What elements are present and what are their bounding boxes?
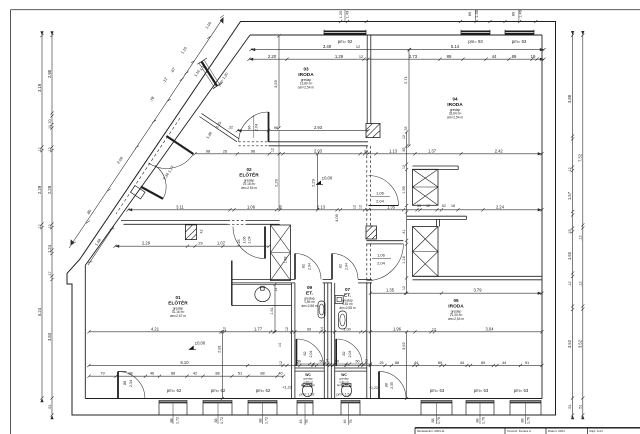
svg-text:pm= 62: pm= 62 (211, 388, 226, 393)
svg-text:12: 12 (365, 359, 369, 363)
svg-text:pm= 63: pm= 63 (514, 388, 529, 393)
svg-text:1.13: 1.13 (389, 148, 398, 153)
svg-text:89: 89 (512, 54, 517, 59)
fixture: basin counter line (232, 284, 292, 286)
door diag upper arc (148, 154, 193, 168)
dim chain left inner x=52 (50, 34, 53, 417)
svg-text:2,04: 2,04 (376, 199, 385, 204)
svg-text:.70: .70 (48, 119, 52, 124)
svg-text:5.24: 5.24 (37, 307, 42, 316)
svg-text:12: 12 (271, 148, 275, 152)
wall V3b: room 09 east (323, 283, 325, 399)
window bottom pm=63 a (421, 400, 452, 403)
dim line room05 left vertical (405, 330, 408, 400)
window bottom pm=62 a (159, 400, 187, 403)
door diag upper leaf (166, 136, 193, 154)
door corridor leaf (264, 227, 266, 259)
door corridor arc (233, 227, 265, 259)
svg-text:12: 12 (223, 327, 227, 331)
svg-text:ám=2,54 m: ám=2,54 m (241, 186, 257, 190)
svg-text:12: 12 (432, 327, 436, 331)
svg-text:1.24: 1.24 (47, 244, 52, 253)
svg-text:14: 14 (326, 359, 330, 363)
page frame (11, 9, 640, 11)
svg-text:1.28: 1.28 (237, 240, 241, 247)
svg-text:2.04: 2.04 (255, 124, 259, 131)
svg-text:12: 12 (402, 135, 406, 139)
svg-text:99: 99 (307, 327, 311, 331)
svg-text:2,35: 2,35 (390, 382, 394, 389)
wall: basin niche west wall (231, 261, 233, 306)
svg-text:1.37: 1.37 (428, 148, 437, 153)
svg-text:46: 46 (343, 420, 347, 424)
svg-text:1.77: 1.77 (254, 326, 263, 331)
svg-text:ám=2,54 m: ám=2,54 m (448, 317, 464, 321)
svg-text:3.52: 3.52 (567, 339, 572, 348)
svg-text:.50: .50 (318, 360, 323, 364)
svg-text:79: 79 (100, 371, 104, 376)
fixture: wc bowl 09 (303, 384, 313, 396)
svg-text:51: 51 (238, 371, 242, 376)
wall: mid bar (407, 215, 467, 217)
svg-text:12: 12 (402, 165, 406, 169)
svg-text:18: 18 (451, 204, 455, 208)
wall: door D3 head wall (366, 240, 403, 242)
wall: basin niche top (232, 278, 295, 280)
window top pm=93 a (461, 31, 490, 35)
window diagonal pm=1.20 (198, 58, 223, 89)
wall: ET/WC divider 09 (295, 367, 324, 369)
svg-text:4.09: 4.09 (334, 213, 339, 222)
svg-text:89: 89 (512, 12, 516, 16)
door room05 exit arc (379, 371, 406, 398)
door wc07 arc (336, 339, 362, 365)
svg-text:Munkaszám: 2004-11: Munkaszám: 2004-11 (417, 429, 445, 433)
wall: bottom inner face (85, 398, 542, 400)
svg-text:.51: .51 (568, 404, 572, 409)
svg-text:1.46: 1.46 (519, 10, 523, 17)
dim chain M8 (87, 375, 285, 378)
svg-text:12: 12 (359, 55, 363, 59)
wall V2: shaft west wall (275, 223, 277, 226)
svg-text:.29: .29 (197, 242, 202, 246)
svg-text:3.83: 3.83 (47, 332, 52, 341)
svg-text:Tervező: Kovács A.: Tervező: Kovács A. (507, 429, 532, 433)
column C1 hatched (366, 124, 380, 138)
svg-text:1,72: 1,72 (220, 417, 224, 424)
svg-text:ám=2,57 m: ám=2,57 m (170, 314, 186, 318)
svg-text:1,76: 1,76 (527, 417, 531, 424)
svg-text:1,76: 1,76 (482, 417, 486, 424)
svg-text:3.49: 3.49 (323, 44, 332, 49)
svg-text:1.68: 1.68 (284, 257, 288, 264)
svg-text:2.93: 2.93 (314, 125, 323, 130)
wall: corridor partition dashed lower (366, 244, 368, 284)
svg-text:Dátum: 2004: Dátum: 2004 (548, 429, 565, 433)
door diag lower arc (155, 166, 166, 199)
dim line x279 lower (278, 131, 280, 210)
svg-text:ám=2,54 m: ám=2,54 m (447, 116, 463, 120)
door wc09 arc (297, 339, 324, 366)
svg-text:ám=2,58 m: ám=2,58 m (339, 306, 355, 310)
svg-text:pm= 92: pm= 92 (338, 39, 353, 44)
svg-text:88: 88 (260, 371, 264, 376)
svg-text:.12: .12 (578, 235, 582, 240)
svg-text:2,34: 2,34 (129, 380, 133, 387)
svg-text:ám=2,54 m: ám=2,54 m (298, 86, 314, 90)
svg-text:ám=2,58 m: ám=2,58 m (301, 304, 317, 308)
door room01 south leaf (117, 372, 119, 399)
door diag lower leaf (141, 187, 163, 199)
svg-text:2.29: 2.29 (47, 185, 52, 194)
svg-text:±0,00: ±0,00 (322, 176, 333, 181)
svg-text:3.88: 3.88 (567, 94, 572, 103)
svg-text:34: 34 (364, 149, 368, 153)
svg-text:88: 88 (259, 419, 263, 423)
window top pm=93 b (505, 31, 534, 35)
svg-text:2.13: 2.13 (317, 204, 326, 209)
svg-text:2.42: 2.42 (495, 148, 504, 153)
svg-text:2.73: 2.73 (409, 54, 418, 59)
svg-text:1,06: 1,06 (243, 236, 247, 243)
svg-text:.12: .12 (48, 147, 52, 152)
shaft S2 x-braced (413, 169, 439, 205)
wall H1: rooms 02/03 partition (269, 141, 369, 143)
svg-text:88: 88 (521, 419, 525, 423)
svg-text:12: 12 (353, 205, 357, 209)
svg-text:1,72: 1,72 (176, 417, 180, 424)
svg-text:1.57: 1.57 (567, 191, 572, 200)
svg-text:01: 01 (175, 295, 181, 300)
door U leaf (369, 205, 399, 207)
shaft S1 x-braced (271, 225, 291, 281)
wall: top inner face (250, 34, 542, 36)
svg-text:1,72: 1,72 (265, 417, 269, 424)
leader lines above top wall (344, 10, 346, 22)
svg-text:3.52: 3.52 (577, 339, 582, 348)
svg-text:88: 88 (431, 419, 435, 423)
svg-text:pm= 63: pm= 63 (430, 388, 445, 393)
wall: right inner face (541, 35, 543, 399)
svg-text:.10: .10 (48, 125, 52, 130)
svg-text:ám=2,58 m: ám=2,58 m (337, 383, 352, 387)
svg-text:2,04: 2,04 (345, 263, 349, 270)
dim chain right inner x=572.6 (571, 34, 574, 417)
svg-text:88: 88 (171, 371, 175, 376)
svg-text:.51: .51 (578, 404, 582, 409)
svg-text:2,04: 2,04 (377, 261, 386, 266)
dim line room03/04 vertical x=409 (407, 48, 410, 148)
svg-text:26: 26 (223, 149, 227, 153)
svg-text:88: 88 (279, 205, 283, 209)
dim chain M1 (236, 129, 370, 132)
leader lines below windows (172, 403, 174, 424)
svg-text:62: 62 (442, 204, 446, 208)
dim 1.48 diagonal (88, 226, 115, 265)
wall V3c: room 07 east (366, 283, 368, 399)
svg-text:pm= 93: pm= 93 (512, 39, 527, 44)
svg-text:.41: .41 (402, 229, 406, 234)
window bottom pm=63 b (466, 400, 494, 403)
svg-text:1.61: 1.61 (270, 307, 274, 314)
title block band (415, 427, 640, 429)
door D1 arc (239, 112, 269, 142)
dim chain M3 (126, 208, 543, 211)
window bottom pm=62 b (203, 400, 232, 403)
wall: left inner face (84, 265, 86, 398)
fixture: washbasin room09 (318, 301, 325, 318)
svg-text:88: 88 (215, 371, 219, 376)
svg-text:7.32: 7.32 (577, 153, 582, 162)
wall: diagonal inner face (85, 35, 250, 265)
svg-text:42: 42 (193, 371, 197, 376)
door room09 north leaf (294, 254, 296, 280)
svg-text:.12: .12 (48, 224, 52, 229)
door wc09 leaf (296, 339, 298, 366)
ticks on top wall outer line (339, 20, 537, 23)
diag chain end arrows (219, 17, 225, 24)
svg-text:96: 96 (274, 125, 279, 130)
svg-text:12: 12 (356, 45, 360, 49)
wall H6: ET rooms north wall (0, 0, 1, 1)
svg-text:1.07: 1.07 (217, 241, 226, 246)
column C2 hatched (366, 226, 377, 239)
svg-text:pm= 62: pm= 62 (167, 388, 182, 393)
svg-text:.25: .25 (378, 361, 383, 365)
window bottom pm=62 c (248, 400, 277, 403)
dim chain top2 (247, 58, 545, 61)
door room01 south arc (118, 372, 145, 399)
door room09 north arc (295, 253, 321, 279)
svg-text:14: 14 (278, 343, 282, 347)
svg-text:1,06: 1,06 (377, 253, 386, 258)
wall H3: T-bar wall (413, 165, 459, 167)
svg-text:2,04: 2,04 (348, 351, 352, 358)
svg-text:89: 89 (468, 12, 472, 16)
dim chain top1 (249, 48, 545, 51)
wall H4: room 05 north wall (413, 275, 542, 277)
fixture: sink room07 (335, 296, 343, 304)
svg-text:4.21: 4.21 (151, 326, 160, 331)
wall: room05 upper west wall (435, 219, 437, 226)
svg-text:pm= 1,52: pm= 1,52 (299, 393, 314, 397)
svg-text:.82: .82 (302, 264, 306, 269)
svg-text:09: 09 (307, 285, 313, 290)
svg-text:05: 05 (453, 298, 459, 303)
svg-text:98: 98 (206, 148, 211, 153)
svg-text:.17: .17 (48, 271, 52, 276)
svg-text:.82: .82 (342, 352, 346, 357)
svg-text:89: 89 (481, 360, 485, 365)
svg-text:.12: .12 (578, 281, 582, 286)
svg-text:pm= 93: pm= 93 (468, 39, 483, 44)
svg-text:2,04: 2,04 (308, 263, 312, 270)
svg-text:pm= 1,52: pm= 1,52 (336, 393, 351, 397)
wall H2: room 01 north wall (121, 220, 228, 222)
svg-text:±0,00: ±0,00 (195, 341, 206, 346)
svg-text:1,06: 1,06 (376, 191, 385, 196)
svg-text:ám=2,58 m: ám=2,58 m (301, 383, 316, 387)
wall V3a: room 09 west (291, 283, 293, 399)
svg-text:46: 46 (150, 371, 154, 376)
svg-text:89: 89 (447, 54, 452, 59)
svg-text:.42: .42 (200, 230, 204, 235)
door U arc (1.06) corridor upper (369, 176, 399, 206)
svg-text:1.96: 1.96 (393, 326, 402, 331)
window bottom wc a (297, 400, 313, 403)
svg-text:1.06: 1.06 (247, 204, 256, 209)
svg-text:1.16: 1.16 (402, 256, 406, 263)
dim chain right outer x=582.8 (581, 34, 584, 417)
window bottom wc b (341, 400, 360, 403)
dim line 1.61 (273, 283, 276, 334)
svg-text:1.20: 1.20 (339, 11, 343, 18)
svg-text:1.00: 1.00 (343, 326, 351, 331)
dim chain left outer x=42 (40, 34, 43, 400)
dim line 2.81 (221, 330, 224, 400)
window bottom pm=63 c (510, 400, 541, 403)
dim line corridor vertical (405, 130, 408, 294)
svg-text:Rajz: A-01: Rajz: A-01 (590, 429, 604, 433)
svg-text:44: 44 (492, 54, 497, 59)
svg-text:91: 91 (525, 360, 529, 365)
dim chain M2 (193, 152, 543, 155)
svg-text:1.49: 1.49 (345, 11, 349, 18)
svg-text:.50: .50 (354, 360, 359, 364)
svg-text:2.29: 2.29 (142, 241, 151, 246)
door room07 north arc (332, 253, 358, 279)
wall: basin niche bottom (232, 305, 292, 307)
svg-text:3.19: 3.19 (37, 83, 42, 92)
svg-text:.12: .12 (38, 147, 42, 152)
svg-text:14: 14 (320, 327, 324, 331)
fixture: basin corridor (255, 287, 270, 302)
svg-text:1.35: 1.35 (386, 288, 395, 293)
svg-text:96: 96 (248, 125, 252, 129)
wall: ET/WC divider 07 (335, 367, 367, 369)
svg-text:1.60: 1.60 (567, 251, 572, 260)
svg-text:2.29: 2.29 (37, 185, 42, 194)
svg-text:2.71: 2.71 (403, 75, 408, 84)
wall: wing wall parallel to diagonal (199, 113, 239, 141)
svg-text:.15: .15 (568, 229, 572, 234)
svg-text:12: 12 (402, 286, 406, 290)
svg-text:04: 04 (452, 97, 458, 102)
svg-text:1.46: 1.46 (475, 10, 479, 17)
svg-text:.12: .12 (38, 224, 42, 229)
dim chain M5 (369, 292, 544, 295)
svg-text:3.79: 3.79 (474, 288, 483, 293)
svg-text:46: 46 (299, 420, 303, 424)
svg-text:85: 85 (402, 148, 406, 152)
svg-text:89: 89 (438, 360, 442, 365)
svg-text:03: 03 (303, 67, 309, 72)
svg-text:12: 12 (279, 361, 283, 365)
svg-text:2,29: 2,29 (273, 178, 278, 187)
svg-text:76: 76 (305, 420, 309, 424)
svg-text:.12: .12 (568, 167, 572, 172)
svg-text:1,76: 1,76 (437, 417, 441, 424)
svg-text:.50: .50 (334, 360, 339, 364)
door room05 exit leaf (378, 371, 380, 398)
svg-text:2,04: 2,04 (309, 351, 313, 358)
fixture: washbasin room07 (339, 311, 347, 329)
svg-text:88: 88 (214, 419, 218, 423)
svg-text:.12: .12 (568, 281, 572, 286)
svg-text:5.14: 5.14 (451, 44, 460, 49)
wall: exterior outline outer face (67, 22, 556, 416)
dim line room03 vertical (277, 34, 280, 129)
svg-text:88: 88 (128, 371, 132, 376)
svg-text:1.59: 1.59 (402, 186, 406, 193)
door D1 leaf (268, 112, 270, 142)
dim chain M7 (87, 364, 543, 367)
svg-text:.88: .88 (385, 383, 389, 388)
svg-text:88: 88 (395, 360, 399, 365)
wall V1: partition rooms 03/04 (366, 35, 368, 124)
svg-text:2.93: 2.93 (314, 148, 323, 153)
svg-text:.88: .88 (123, 381, 127, 386)
svg-text:2,29: 2,29 (311, 178, 316, 187)
svg-text:3,52: 3,52 (401, 341, 406, 350)
svg-text:.32: .32 (228, 126, 233, 130)
svg-text:53: 53 (417, 204, 421, 208)
svg-text:3,59: 3,59 (273, 79, 278, 88)
svg-text:2.81: 2.81 (217, 344, 222, 353)
svg-text:12: 12 (426, 204, 430, 208)
door D3 arc (1.06) corridor lower (366, 244, 403, 281)
dim chain M6 (87, 330, 543, 333)
svg-text:2.98: 2.98 (47, 69, 52, 78)
svg-text:14: 14 (274, 288, 278, 292)
entry step block (131, 186, 146, 199)
svg-text:pm= 62: pm= 62 (256, 388, 271, 393)
column C3 hatched (185, 225, 196, 240)
svg-text:96: 96 (251, 148, 256, 153)
dim line x317.5 (316, 152, 319, 211)
svg-text:88: 88 (476, 419, 480, 423)
svg-text:+1,22: +1,22 (369, 386, 378, 390)
svg-text:.82: .82 (303, 352, 307, 357)
door room07 north leaf (331, 254, 333, 280)
fixture: wc bowl 07 (342, 384, 352, 396)
door diag wall centerline dashed (116, 118, 180, 214)
dim chain M4 (113, 245, 270, 248)
svg-text:2.20: 2.20 (268, 54, 277, 59)
svg-text:pm= 63: pm= 63 (474, 388, 489, 393)
svg-text:3.11: 3.11 (176, 204, 184, 209)
svg-text:1.35: 1.35 (387, 204, 396, 209)
svg-text:2.24: 2.24 (496, 204, 505, 209)
svg-text:6.10: 6.10 (181, 360, 190, 365)
M3 left arrow (128, 208, 132, 211)
dim chain diagonal outer (69, 15, 224, 248)
svg-text:07: 07 (345, 287, 351, 292)
door wc07 leaf (335, 339, 337, 366)
wall V4: corridor partition dashed (366, 146, 368, 226)
svg-text:.51: .51 (48, 404, 52, 409)
svg-text:+1,22: +1,22 (282, 385, 293, 390)
svg-text:2,04: 2,04 (248, 236, 252, 243)
svg-text:76: 76 (349, 420, 353, 424)
svg-text:1.29: 1.29 (335, 54, 344, 59)
svg-text:02: 02 (246, 167, 252, 172)
svg-text:12: 12 (285, 327, 289, 331)
svg-text:12: 12 (359, 205, 363, 209)
chain wc row (294, 362, 372, 365)
wall V3b2: room 07 west (330, 283, 332, 399)
svg-text:3.04: 3.04 (486, 326, 495, 331)
